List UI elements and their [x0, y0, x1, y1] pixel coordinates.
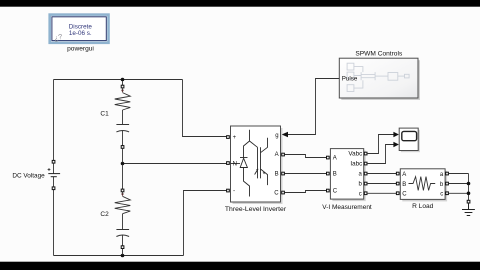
wire V-I a to R Load A	[367, 173, 396, 175]
wire top drop to + port	[183, 80, 227, 137]
svg-text:B: B	[333, 172, 337, 178]
svg-text:C2: C2	[100, 211, 109, 218]
svg-text:R Load: R Load	[412, 203, 434, 210]
svg-text:V-I Measurement: V-I Measurement	[322, 204, 372, 211]
wire Vabc to scope input 1	[367, 135, 394, 154]
wire Iabc to scope input 2	[367, 145, 394, 164]
svg-text:Vabc: Vabc	[348, 150, 362, 157]
svg-text:DC Voltage: DC Voltage	[12, 172, 45, 179]
arrowhead into g port	[282, 132, 288, 138]
wire bottom rise to - port	[184, 191, 227, 256]
wire bottom rail	[54, 255, 184, 257]
capacitor C1 branch	[115, 81, 131, 163]
svg-text:c: c	[359, 191, 362, 197]
letterbox top bar	[0, 0, 480, 7]
svg-text:A: A	[402, 172, 406, 178]
powergui block	[50, 15, 109, 43]
svg-text:c: c	[440, 192, 443, 198]
R Load block	[396, 169, 448, 202]
svg-text:C: C	[333, 189, 338, 195]
wire V-I b to R Load B	[367, 183, 396, 185]
svg-text:Three-Level Inverter: Three-Level Inverter	[225, 206, 287, 213]
wire left rail lower	[53, 190, 55, 256]
svg-text:SPWM Controls: SPWM Controls	[355, 51, 403, 58]
svg-text:A: A	[333, 156, 337, 162]
svg-text:B: B	[402, 182, 406, 188]
svg-text:Pulse: Pulse	[342, 76, 358, 83]
V-I Measurement block	[327, 149, 368, 202]
node bus junction b	[467, 182, 471, 186]
ground	[462, 203, 475, 216]
svg-text:C: C	[274, 191, 279, 197]
svg-text:B: B	[275, 172, 279, 178]
wire left rail upper	[53, 80, 55, 161]
arrowhead scope input 2	[393, 142, 399, 147]
wire R Load c to bus	[448, 192, 468, 194]
wire midpoint to N port	[123, 163, 227, 165]
svg-text:Iabc: Iabc	[350, 160, 362, 167]
svg-text:+: +	[233, 135, 237, 141]
node mid junction	[121, 162, 125, 166]
wire R Load a to bus	[448, 173, 468, 175]
wire V-I c to R Load C	[367, 192, 396, 194]
svg-text:C1: C1	[100, 110, 109, 117]
Three-Level Inverter block	[227, 126, 285, 204]
scope block	[399, 128, 420, 152]
svg-text:N: N	[233, 161, 237, 167]
wire right bus vertical	[468, 174, 470, 201]
wire Pulse from SPWM to inverter g	[284, 79, 339, 135]
arrowhead scope input 1	[393, 132, 399, 137]
capacitor C2 branch	[115, 165, 131, 255]
node bus junction c	[467, 192, 471, 196]
svg-text:g: g	[275, 133, 278, 139]
svg-text:-: -	[233, 188, 235, 195]
svg-text:C: C	[402, 192, 407, 198]
letterbox bottom bar	[0, 262, 480, 270]
svg-text:powergui: powergui	[67, 46, 94, 53]
wire inverter B to V-I B	[285, 173, 327, 175]
wire top rail	[54, 79, 183, 81]
svg-text:A: A	[275, 152, 279, 158]
SPWM Controls subsystem block	[339, 58, 420, 100]
node bottom junction	[121, 254, 125, 258]
node top junction	[121, 78, 125, 82]
wire inverter C to V-I C	[285, 191, 327, 193]
svg-text:1e-06 s.: 1e-06 s.	[69, 30, 92, 37]
wire R Load b to bus	[448, 183, 468, 185]
ground port	[467, 200, 470, 203]
wire inverter A to V-I A	[285, 155, 327, 158]
DC Voltage source V1	[48, 160, 61, 189]
